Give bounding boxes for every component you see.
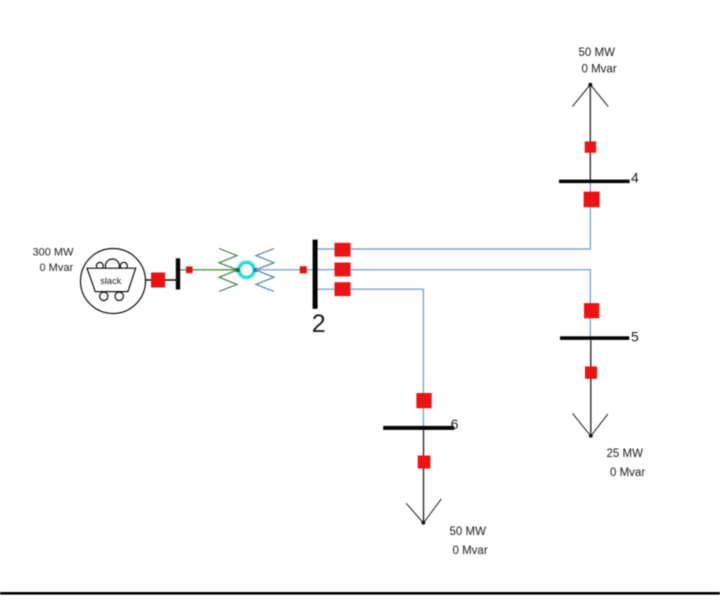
svg-text:50 MW: 50 MW [450, 526, 487, 538]
svg-text:4: 4 [631, 170, 639, 186]
svg-text:50 MW: 50 MW [579, 47, 616, 59]
svg-text:25 MW: 25 MW [607, 448, 644, 460]
svg-text:0 Mvar: 0 Mvar [453, 545, 488, 557]
svg-text:slack: slack [100, 276, 122, 286]
svg-text:0 Mvar: 0 Mvar [40, 262, 74, 274]
svg-text:0 Mvar: 0 Mvar [610, 467, 645, 479]
svg-text:5: 5 [631, 329, 639, 345]
svg-text:2: 2 [312, 310, 326, 338]
svg-text:0 Mvar: 0 Mvar [582, 63, 617, 75]
svg-text:6: 6 [451, 416, 459, 432]
svg-text:300 MW: 300 MW [33, 247, 75, 259]
